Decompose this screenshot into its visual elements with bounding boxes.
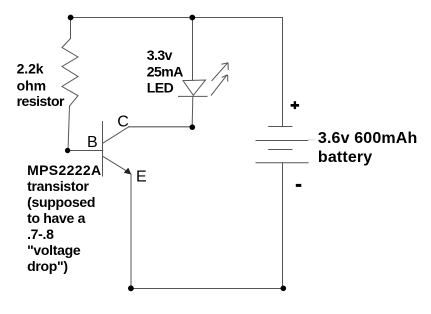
svg-text:3.3v: 3.3v: [147, 47, 173, 63]
LED light arrow 1 shaft: [212, 63, 228, 81]
battery BT1 plate faint extension: [308, 139, 315, 141]
wire left rail lower: [68, 106, 70, 151]
LED light arrow 2 shaft: [211, 75, 227, 95]
node dot base-left: [65, 148, 70, 153]
LED light arrow 2 head: [222, 75, 228, 81]
LED D1 triangle: [183, 80, 206, 95]
LED D1 cathode bar: [179, 95, 208, 97]
wire left rail upper: [70, 18, 72, 39]
node dot bottom-right: [281, 286, 287, 292]
svg-text:ohm: ohm: [17, 78, 46, 94]
battery BT1 short plate: [269, 149, 292, 151]
svg-text:C: C: [117, 113, 129, 130]
wire base lead: [68, 150, 103, 152]
svg-text:LED: LED: [147, 80, 174, 96]
battery plus sign: [291, 101, 300, 109]
node dot top-left: [68, 15, 74, 21]
resistor R1 2.2k zigzag: [62, 39, 78, 107]
transistor Q1 emitter diagonal: [103, 156, 128, 171]
transistor Q1 base bar: [102, 122, 104, 177]
svg-text:resistor: resistor: [17, 93, 65, 109]
wire right rail upper: [282, 18, 284, 127]
wire right rail lower: [282, 163, 284, 289]
svg-text:B: B: [87, 134, 98, 151]
battery BT1 top terminal plate: [269, 126, 292, 128]
wire emitter vertical: [130, 175, 132, 289]
battery BT1 long plate 1: [256, 140, 308, 142]
transistor Q1 emitter arrowhead: [124, 168, 132, 175]
wire bottom rail: [131, 288, 284, 290]
svg-text:"voltage: "voltage: [27, 242, 81, 258]
node dot collector/LED junction: [190, 124, 196, 130]
LED light arrow 1 head: [222, 63, 228, 70]
LED D1 anode wire: [192, 18, 194, 81]
svg-text:drop"): drop"): [27, 258, 68, 274]
battery minus sign: [296, 184, 302, 187]
svg-text:25mA: 25mA: [147, 63, 184, 79]
svg-text:2.2k: 2.2k: [17, 61, 44, 77]
svg-text:battery: battery: [318, 149, 372, 166]
LED D1 cathode wire: [191, 97, 194, 125]
svg-text:.7-.8: .7-.8: [27, 226, 54, 242]
svg-text:E: E: [136, 168, 147, 185]
svg-text:3.6v 600mAh: 3.6v 600mAh: [318, 130, 418, 147]
svg-text:to have a: to have a: [27, 210, 86, 226]
node dot LED top: [189, 15, 195, 21]
transistor Q1 collector diagonal: [103, 127, 129, 143]
svg-text:MPS2222A: MPS2222A: [27, 162, 101, 178]
svg-text:transistor: transistor: [27, 178, 89, 194]
wire collector to LED node: [129, 126, 192, 128]
battery BT1 long plate 2: [256, 162, 308, 164]
node dot bottom-left: [128, 285, 134, 291]
wire top rail: [71, 17, 283, 19]
svg-text:(supposed: (supposed: [27, 194, 95, 210]
